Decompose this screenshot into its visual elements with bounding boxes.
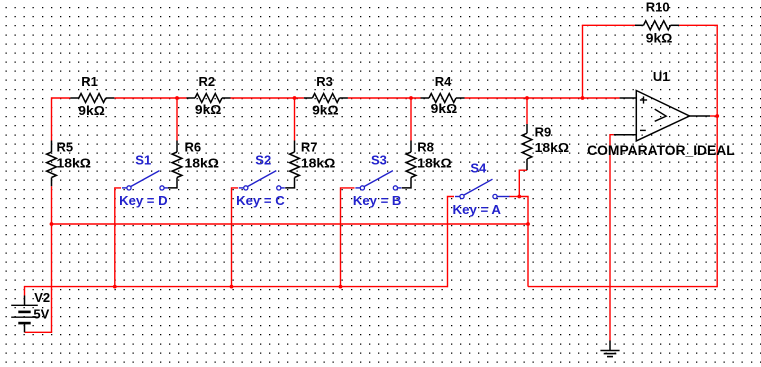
switch S4 Key = A — [453, 160, 510, 217]
resistor R2 9kΩ — [187, 74, 231, 117]
svg-text:S1: S1 — [135, 153, 151, 168]
wire top rail R4 to op-amp input — [465, 97, 620, 99]
svg-text:R1: R1 — [81, 74, 98, 89]
resistor R5 18kΩ — [47, 140, 91, 187]
node S3 on rail B — [339, 285, 343, 289]
svg-text:S2: S2 — [255, 153, 271, 168]
wire top rail R3 to R4 — [348, 97, 421, 99]
wire R9 bottom jog to S4 node — [519, 170, 527, 196]
switch S3 Key = B — [353, 153, 402, 209]
wire feedback tap up from top rail — [582, 25, 584, 98]
wire S4 node to lower vertical — [519, 197, 528, 287]
svg-text:Key = D: Key = D — [119, 193, 168, 208]
svg-text:18kΩ: 18kΩ — [417, 156, 452, 171]
svg-text:R8: R8 — [417, 140, 434, 155]
svg-text:9kΩ: 9kΩ — [195, 102, 222, 117]
node S1 on rail B — [113, 285, 117, 289]
wire node A drop to R6 — [176, 98, 178, 141]
wire S4 right to node — [509, 196, 519, 198]
svg-text:S4: S4 — [470, 160, 487, 175]
wire op-amp output — [710, 115, 717, 117]
svg-text:R3: R3 — [316, 74, 333, 89]
resistor R10 9kΩ — [635, 0, 679, 46]
resistor R7 18kΩ — [290, 140, 336, 178]
node rail A right — [526, 222, 530, 226]
wire elbow switch to resistor bottom at x=411.0 — [402, 178, 411, 188]
node op-amp output — [715, 114, 719, 118]
svg-text:Key = C: Key = C — [236, 193, 285, 208]
svg-text:R9: R9 — [535, 124, 552, 139]
switch S1 Key = D — [119, 153, 168, 209]
wire S1 left drop — [115, 188, 121, 287]
svg-text:9kΩ: 9kΩ — [78, 103, 105, 118]
wire left vertical from top rail to R5 — [51, 97, 53, 140]
node R1/R2/R6 — [175, 96, 179, 100]
wire R5 bottom vertical to battery negative — [51, 186, 53, 332]
wire bottom output rail — [528, 286, 717, 288]
wire elbow switch to resistor bottom at x=294.5 — [285, 178, 294, 188]
svg-text:18kΩ: 18kΩ — [57, 156, 92, 171]
wire R10 output vertical — [716, 25, 718, 116]
svg-text:U1: U1 — [653, 69, 670, 84]
resistor R6 18kΩ — [172, 140, 219, 178]
wire node B drop to R7 — [294, 98, 296, 141]
node R2/R3/R7 — [293, 96, 297, 100]
wire rail from R5 bottom junction — [52, 223, 529, 225]
wire top rail R2 to R3 — [231, 97, 304, 99]
resistor R9 18kΩ — [522, 124, 569, 170]
svg-text:18kΩ: 18kΩ — [535, 140, 570, 155]
svg-text:COMPARATOR_IDEAL: COMPARATOR_IDEAL — [587, 143, 735, 158]
svg-text:R5: R5 — [57, 140, 74, 155]
node feedback tap — [581, 96, 585, 100]
wire output vertical down — [716, 116, 718, 287]
svg-text:18kΩ: 18kΩ — [301, 156, 336, 171]
wire R10 right horizontal — [679, 24, 718, 26]
node R5 bottom rail — [50, 222, 54, 226]
node R3/R4/R8 — [409, 96, 413, 100]
svg-text:R4: R4 — [435, 74, 452, 89]
svg-text:R6: R6 — [185, 140, 202, 155]
wire R10 left horizontal — [582, 24, 635, 26]
svg-text:S3: S3 — [371, 153, 387, 168]
svg-text:Key = A: Key = A — [453, 202, 502, 217]
op-amp U1 COMPARATOR_IDEAL — [587, 69, 735, 158]
wire bottom rail B — [25, 286, 448, 288]
svg-text:9kΩ: 9kΩ — [312, 103, 339, 118]
wire top rail R1 to R2 — [114, 97, 186, 99]
svg-text:Key = B: Key = B — [353, 193, 402, 208]
svg-text:V2: V2 — [34, 290, 50, 305]
node R4/R9 — [525, 96, 529, 100]
wire node C drop to R8 — [410, 98, 412, 141]
ground — [600, 341, 619, 357]
svg-text:5V: 5V — [33, 307, 49, 322]
svg-text:R2: R2 — [199, 74, 216, 89]
wire node D drop to R9 — [526, 98, 528, 124]
svg-text:R7: R7 — [301, 140, 318, 155]
resistor R8 18kΩ — [406, 140, 452, 178]
svg-text:R10: R10 — [646, 0, 670, 14]
wire elbow switch to resistor bottom at x=177.0 — [168, 178, 177, 188]
node S2 on rail B — [230, 285, 234, 289]
resistor R4 9kΩ — [421, 74, 465, 116]
wire battery positive corner — [24, 286, 26, 296]
resistor R3 9kΩ — [304, 74, 348, 117]
battery V2 5V — [11, 290, 50, 333]
wire battery negative bottom — [25, 331, 53, 333]
wire top rail segment left of R1 — [52, 97, 71, 99]
svg-text:18kΩ: 18kΩ — [185, 156, 220, 171]
wire ground vertical from inverting input — [610, 135, 614, 341]
wire S3 left drop — [341, 188, 355, 287]
svg-text:9kΩ: 9kΩ — [646, 31, 673, 46]
resistor R1 9kΩ — [70, 74, 114, 118]
svg-text:9kΩ: 9kΩ — [431, 101, 458, 116]
node S4/R9 — [517, 195, 521, 199]
switch S2 Key = C — [236, 153, 285, 209]
wire S2 left drop — [232, 188, 239, 287]
wire S4 left drop — [448, 197, 455, 288]
